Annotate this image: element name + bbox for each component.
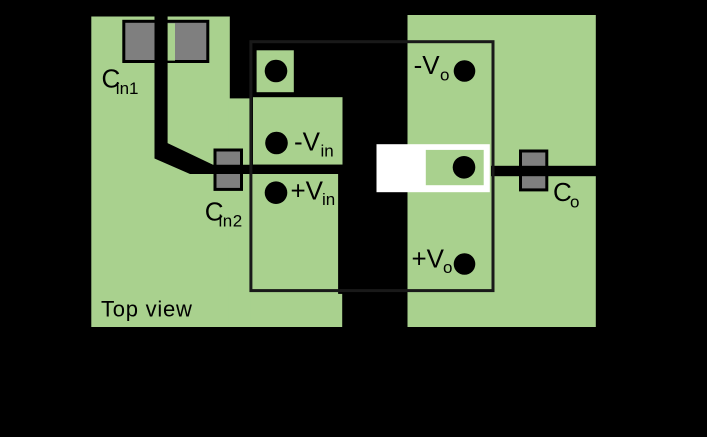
- svg-text:C: C: [553, 177, 572, 207]
- +Vin pad area: [250, 174, 338, 327]
- svg-text:o: o: [440, 65, 449, 84]
- svg-text:in1: in1: [116, 79, 139, 98]
- svg-text:+V: +V: [412, 243, 445, 273]
- isolation island pin dot: [453, 156, 476, 179]
- svg-text:in: in: [321, 142, 334, 161]
- svg-text:in: in: [322, 190, 335, 209]
- capacitor Cin2: [215, 150, 242, 189]
- -Vin pin dot: [265, 132, 288, 155]
- svg-text:-V: -V: [414, 50, 441, 80]
- green gap inside Cin1: [167, 23, 175, 60]
- input copper pour (step extension): [229, 98, 252, 327]
- bottom copper band: [251, 294, 343, 327]
- +Vin pin dot: [265, 181, 288, 204]
- input copper pour (left, main block): [91, 17, 230, 328]
- -Vo pin dot: [454, 60, 476, 82]
- input trace (Cin1 to Cin2 to Vin pins): [155, 14, 343, 174]
- +Vo pin dot: [454, 253, 476, 275]
- -Vin pad area: [253, 97, 343, 164]
- green island inside white box: [426, 150, 484, 185]
- white isolation box: [377, 144, 490, 192]
- svg-text:in2: in2: [219, 212, 243, 231]
- output trace (Co to output pour edge): [491, 166, 597, 176]
- svg-text:Top view: Top view: [101, 297, 193, 322]
- pin 1 square pad: [257, 50, 294, 92]
- svg-text:o: o: [570, 193, 579, 212]
- output copper pour (right): [408, 15, 596, 327]
- IC package outline: [251, 42, 493, 291]
- pin 1 via dot: [265, 60, 288, 83]
- capacitor Co: [521, 151, 547, 190]
- svg-text:-V: -V: [294, 126, 321, 156]
- capacitor Cin1: [124, 21, 208, 61]
- svg-text:+V: +V: [291, 175, 324, 205]
- svg-text:o: o: [443, 258, 452, 277]
